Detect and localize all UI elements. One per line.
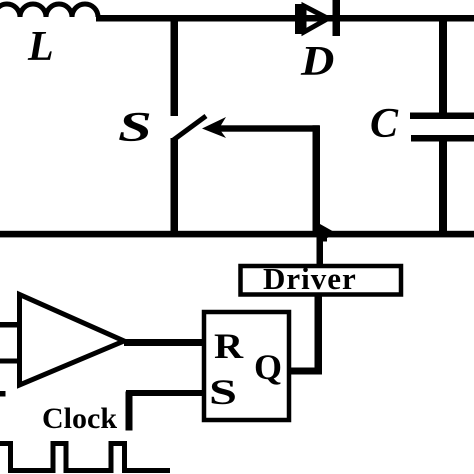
label S (flip-flop) bbox=[209, 371, 237, 413]
wire Driver box to Q corner bbox=[315, 296, 323, 373]
label Driver bbox=[263, 261, 357, 297]
label L bbox=[28, 23, 54, 71]
clock waveform bbox=[0, 444, 170, 471]
label R bbox=[214, 325, 243, 367]
wire comparator input lower bbox=[0, 359, 20, 364]
wire feedback vertical down to ground rail bbox=[313, 125, 321, 231]
wire vertical from top rail to switch bbox=[171, 15, 179, 116]
wire ground rail to Driver box bbox=[317, 237, 324, 264]
flip-flop box U1 bbox=[204, 312, 289, 420]
wire Q output horizontal bbox=[291, 368, 322, 375]
wire right rail lower (capacitor to ground rail) bbox=[439, 141, 447, 234]
arrowhead at switch (control arrow) bbox=[202, 117, 226, 138]
diode D bbox=[295, 0, 340, 36]
arrowhead on ground rail bbox=[320, 224, 336, 242]
wire switch bottom to ground rail bbox=[171, 138, 179, 234]
label Q bbox=[254, 346, 282, 388]
Driver box bbox=[241, 266, 402, 295]
ground rail bottom bbox=[0, 231, 474, 238]
wire comparator input upper bbox=[0, 322, 20, 328]
op-amp comparator bbox=[20, 295, 125, 386]
label C bbox=[370, 100, 398, 148]
wire top rail bbox=[96, 15, 474, 22]
label D bbox=[301, 38, 334, 86]
inductor L bbox=[0, 4, 98, 17]
wire comparator output to R input bbox=[124, 339, 204, 346]
label S (switch) bbox=[118, 104, 152, 152]
switch S blade bbox=[172, 116, 206, 141]
node mark left edge bbox=[0, 391, 6, 397]
wire clock stub vertical bbox=[126, 392, 133, 431]
label Clock bbox=[42, 402, 117, 436]
capacitor C plates bbox=[410, 113, 474, 120]
wire right rail upper (top rail to capacitor) bbox=[439, 15, 447, 113]
wire S input bbox=[126, 390, 204, 396]
wire arrow shaft to feedback corner bbox=[218, 125, 319, 131]
